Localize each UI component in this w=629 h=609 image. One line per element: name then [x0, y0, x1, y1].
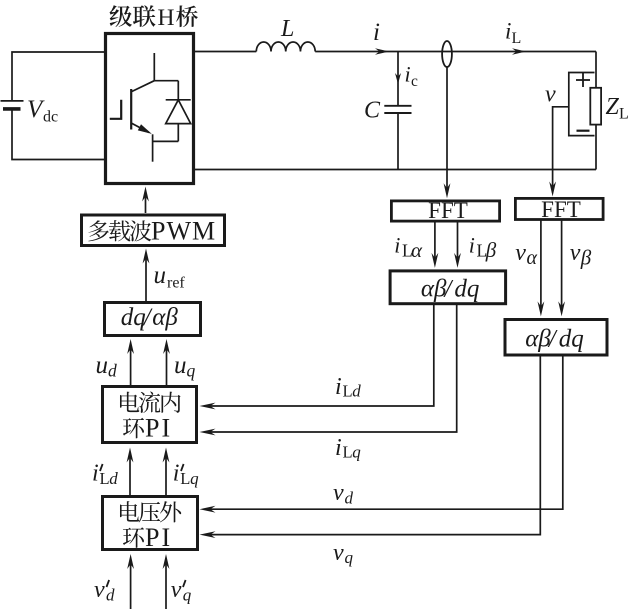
label v'd	[94, 577, 115, 605]
svg-text:L: L	[280, 16, 294, 42]
arrow current iL	[512, 48, 526, 54]
svg-text:u: u	[96, 352, 109, 379]
svg-text:H: H	[158, 5, 175, 31]
wire iLq feedback	[210, 304, 457, 432]
label i'Lq	[173, 461, 199, 489]
wire iLbeta	[457, 222, 459, 263]
svg-text:αβ: αβ	[525, 326, 551, 353]
label C	[364, 98, 381, 124]
label ic	[405, 62, 419, 91]
label iLq	[335, 435, 361, 462]
label 级联H桥	[109, 5, 198, 31]
svg-text:dq: dq	[559, 326, 584, 353]
wire vq-ref	[165, 560, 167, 609]
block FFT (voltage)	[515, 198, 603, 219]
H-bridge block (级联H桥)	[106, 34, 194, 184]
svg-text:v: v	[171, 577, 182, 603]
svg-text:I: I	[162, 523, 171, 552]
label uref	[154, 262, 186, 292]
svg-text:P: P	[145, 523, 159, 552]
battery Vdc plates	[1, 101, 24, 109]
svg-text:q: q	[352, 443, 361, 462]
block dq/alpha-beta	[105, 303, 201, 336]
label vbeta	[570, 240, 592, 270]
svg-text:q: q	[183, 586, 192, 605]
svg-text:β: β	[580, 246, 592, 270]
svg-text:d: d	[352, 382, 361, 401]
wire sensor to FFT	[446, 67, 448, 194]
polarity minus	[577, 130, 590, 132]
svg-text:I: I	[162, 414, 171, 443]
block FFT (current)	[391, 201, 499, 221]
svg-text:v: v	[94, 577, 105, 603]
svg-text:q: q	[345, 548, 354, 567]
block 电压外环PI (voltage outer loop PI)	[103, 497, 198, 550]
label 电流内	[120, 391, 181, 412]
label 环PI	[123, 414, 170, 443]
svg-text:β: β	[485, 238, 497, 262]
svg-text:αβ: αβ	[152, 304, 178, 331]
svg-text:W: W	[167, 217, 192, 246]
wire vd-ref	[130, 560, 132, 609]
svg-text:i: i	[394, 233, 400, 258]
wire iLq-ref	[165, 453, 167, 495]
wire uq	[166, 345, 168, 386]
label Vdc	[27, 96, 58, 126]
label 电压外	[120, 501, 181, 522]
svg-text:dq: dq	[121, 304, 146, 331]
svg-text:Z: Z	[606, 94, 620, 120]
svg-text:d: d	[108, 361, 117, 381]
block alpha-beta/dq (current)	[390, 271, 506, 304]
svg-text:i: i	[469, 233, 475, 258]
svg-text:c: c	[411, 73, 418, 90]
inductor L	[256, 42, 315, 52]
svg-text:v: v	[333, 540, 344, 566]
label v'q	[171, 577, 192, 605]
svg-text:M: M	[192, 217, 215, 246]
svg-text:ref: ref	[167, 275, 185, 292]
label vd	[333, 480, 354, 508]
transistor IGBT with anti-parallel diode	[110, 53, 191, 162]
block 电流内环PI (current inner loop PI)	[103, 387, 197, 443]
svg-text:dc: dc	[43, 109, 58, 126]
wire vd feedback	[210, 355, 563, 509]
wire bottom rail	[195, 169, 596, 171]
block 多载波PWM	[82, 215, 225, 246]
svg-text:dq: dq	[454, 276, 479, 303]
wire ud	[130, 345, 132, 386]
wire iLd feedback	[210, 304, 434, 406]
load ZL	[590, 88, 601, 125]
svg-text:d: d	[345, 489, 354, 508]
capacitor C plates	[384, 106, 411, 113]
label 环PI (voltage)	[123, 523, 170, 552]
svg-text:α: α	[527, 247, 538, 269]
label 多载波PWM	[88, 217, 215, 246]
label v	[545, 82, 556, 108]
block alpha-beta/dq (voltage)	[505, 320, 607, 356]
svg-text:u: u	[154, 262, 167, 289]
label i'Ld	[92, 461, 118, 489]
label iLd	[335, 374, 361, 401]
svg-text:v: v	[515, 240, 526, 266]
svg-text:α: α	[411, 238, 423, 262]
svg-text:P: P	[145, 414, 159, 443]
svg-text:L: L	[180, 469, 190, 488]
svg-text:i: i	[92, 461, 99, 487]
label valpha	[515, 240, 537, 269]
label L	[280, 16, 294, 42]
svg-text:αβ: αβ	[421, 276, 447, 303]
svg-text:i: i	[173, 461, 180, 487]
wire vq feedback	[210, 355, 540, 535]
arrow current ic	[395, 73, 401, 84]
svg-text:L: L	[343, 382, 353, 401]
wire v sense tap	[553, 107, 569, 193]
wire top rail	[195, 51, 256, 53]
polarity plus	[576, 73, 590, 87]
svg-text:q: q	[190, 469, 199, 488]
svg-text:i: i	[505, 19, 511, 44]
svg-text:L: L	[343, 443, 353, 462]
svg-text:L: L	[100, 469, 110, 488]
svg-text:i: i	[335, 374, 342, 400]
svg-text:v: v	[545, 82, 556, 108]
label i	[373, 19, 380, 46]
wire vbeta	[561, 220, 563, 312]
wire battery-loop top/left/bottom	[12, 52, 104, 160]
svg-text:d: d	[106, 586, 115, 605]
wire top rail cont.	[315, 51, 596, 53]
svg-text:FFT: FFT	[428, 198, 468, 223]
svg-text:i: i	[335, 435, 342, 461]
svg-text:P: P	[151, 217, 165, 246]
current sensor (CT)	[442, 41, 452, 67]
wire capacitor branch	[397, 52, 399, 170]
label vq	[333, 540, 354, 567]
label ud	[96, 352, 118, 381]
wire PWM to H-bridge	[145, 196, 147, 213]
svg-text:v: v	[570, 240, 581, 266]
wire right rail	[595, 52, 597, 170]
svg-text:C: C	[364, 98, 381, 124]
wire uref	[145, 254, 147, 301]
arrow current i	[375, 48, 389, 54]
svg-text:FFT: FFT	[541, 197, 581, 222]
label iLalpha	[394, 233, 423, 263]
wire iLd-ref	[129, 453, 131, 495]
svg-text:i: i	[373, 19, 380, 46]
svg-text:v: v	[333, 480, 344, 506]
svg-text:u: u	[174, 352, 187, 379]
svg-text:d: d	[109, 469, 118, 488]
svg-text:i: i	[405, 62, 411, 87]
svg-text:L: L	[512, 30, 522, 47]
svg-text:q: q	[187, 361, 196, 381]
voltage sense bracket	[569, 73, 595, 136]
wire iLalpha	[434, 222, 436, 263]
label ZL	[606, 94, 629, 123]
svg-text:L: L	[619, 106, 629, 123]
label uq	[174, 352, 196, 381]
label iL	[505, 19, 521, 48]
label iLbeta	[469, 233, 497, 263]
wire valpha	[540, 220, 542, 312]
